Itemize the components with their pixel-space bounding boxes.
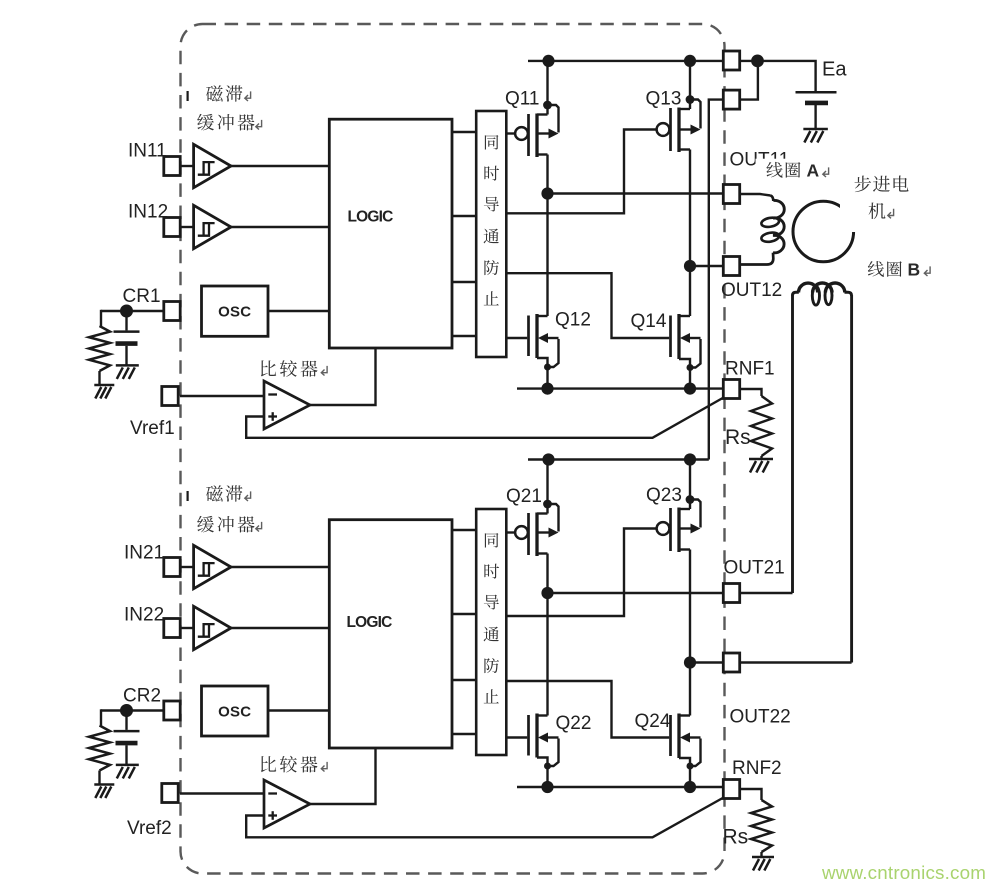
wire RNF2 to Rs	[739, 789, 761, 800]
svg-text:Rs: Rs	[723, 826, 749, 849]
ground Ea capacitor	[803, 129, 828, 143]
resistor Rs upper	[751, 396, 772, 456]
transistor Q13	[657, 100, 701, 153]
wire CR1 node	[101, 310, 164, 312]
svg-text:OUT21: OUT21	[724, 558, 785, 579]
pin OUT12	[723, 257, 739, 276]
svg-text:OUT22: OUT22	[730, 707, 791, 728]
wire Q11 drain rail	[546, 61, 548, 115]
wire Q23 drain rail	[689, 460, 691, 510]
wire CR1 to capacitor	[125, 315, 127, 330]
svg-text:Q11: Q11	[505, 89, 540, 110]
node Q24 source bus junction	[684, 781, 696, 793]
transistor Q22	[529, 714, 559, 770]
wire comparator 2 feedback from RNF2	[246, 798, 723, 838]
block shoot-through-prevention 2	[476, 509, 506, 755]
wire OSC2 to LOGIC2	[268, 709, 329, 711]
pin OUT21	[723, 584, 739, 603]
wire Q13 drain rail	[689, 61, 691, 109]
label shoot-through-prevention text 1	[485, 135, 499, 150]
svg-text:CR1: CR1	[123, 286, 161, 307]
wire buffer IN21 to LOGIC2	[231, 566, 329, 568]
capacitor CR1 timing	[114, 332, 140, 366]
label comparator chinese bottom	[261, 756, 276, 772]
wire Vs top bus	[528, 60, 724, 62]
wire Rs2 to ground	[760, 852, 762, 857]
wire Q14 gate	[506, 273, 669, 338]
pin Vref1	[162, 387, 178, 406]
wire OUT11 pin to coil A	[739, 194, 770, 196]
pin Vs P2	[723, 90, 739, 109]
capacitor Ea filter	[796, 92, 837, 129]
transistor Q11	[515, 105, 558, 157]
svg-text:B: B	[908, 259, 921, 279]
wire pin P2 to Vs bus	[739, 61, 758, 100]
svg-text:www.cntronics.com: www.cntronics.com	[821, 862, 986, 883]
wire LOGIC to block 1c	[452, 281, 476, 283]
svg-text:Vref1: Vref1	[130, 418, 175, 439]
wire OUT21 rail Q21-Q22	[546, 554, 548, 716]
wire OSC1 to LOGIC	[268, 310, 329, 312]
svg-text:Q24: Q24	[635, 711, 671, 732]
wire Q21 drain rail	[546, 460, 548, 514]
wire Q21 gate	[506, 531, 515, 533]
comparator 2 plus sign	[268, 814, 277, 816]
svg-text:OSC: OSC	[218, 704, 251, 721]
node Q13 drain	[686, 95, 695, 104]
wire Q22 gate	[506, 736, 527, 738]
resistor CR2 timing	[89, 726, 110, 771]
wire Vs lower bus	[528, 458, 709, 460]
node Q11 drain	[543, 101, 552, 110]
node Q21 drain	[543, 500, 552, 509]
svg-text:Vref2: Vref2	[127, 818, 172, 839]
pin OUT11	[723, 185, 739, 204]
transistor Q24	[671, 714, 701, 770]
label shoot-through-prevention text 2	[485, 533, 499, 548]
op-amp comparator 1	[264, 381, 310, 429]
wire LOGIC2 to block 2b	[452, 613, 476, 615]
inductor coil A	[771, 196, 774, 202]
wire LOGIC2 to block 2a	[452, 529, 476, 531]
wire IN22 pin to buffer	[180, 627, 194, 629]
buffer IN22 hysteresis	[194, 606, 231, 649]
wire Q23 gate	[506, 529, 657, 617]
wire RNF2 bottom bus	[517, 786, 724, 788]
wire CR2 to resistor	[100, 709, 102, 725]
pin Vref2	[162, 784, 178, 803]
motor circle stepper	[793, 201, 854, 262]
block LOGIC U2	[329, 520, 452, 748]
wire IN11 pin to buffer	[180, 165, 194, 167]
ground Rs upper	[749, 459, 773, 473]
svg-text:RNF1: RNF1	[725, 359, 775, 380]
ground CR1 resistor	[94, 385, 114, 399]
label stepper motor line2	[869, 203, 886, 220]
svg-text:OUT12: OUT12	[721, 280, 782, 301]
wire Q12 source to bus	[546, 367, 548, 389]
transistor Q21	[515, 504, 558, 556]
pin CR1	[164, 302, 180, 321]
buffer IN11 hysteresis	[194, 144, 231, 187]
wire Q11 gate	[506, 132, 515, 134]
wire buffer IN11 to LOGIC	[231, 165, 329, 167]
wire Q24 source to bus	[689, 766, 691, 787]
node lower bus junction left	[542, 453, 554, 465]
svg-text:CR2: CR2	[123, 686, 161, 707]
svg-text:IN12: IN12	[128, 202, 168, 223]
node Vs bus junction right	[684, 55, 696, 67]
wire IN21 pin to buffer	[180, 566, 194, 568]
white overlay on OUT11	[756, 159, 833, 181]
transistor Q12	[529, 314, 559, 371]
wire RNF1 to Rs	[739, 389, 761, 396]
label hysteresis buffer line2 top	[197, 114, 214, 131]
wire OUT22 pin to coil B	[739, 661, 851, 663]
node lower bus junction right	[684, 453, 696, 465]
block OSC1	[202, 286, 269, 336]
wire OUT22 rail Q23-Q24	[689, 550, 691, 716]
wire node OUT21 to pin OUT21	[548, 592, 724, 594]
pin Vs P1	[723, 51, 739, 70]
ground Rs lower	[752, 857, 774, 871]
comparator 1 minus sign	[268, 393, 277, 395]
svg-text:Q23: Q23	[646, 485, 682, 506]
IC boundary dashed box	[181, 24, 725, 874]
wire comparator 1 feedback from RNF1	[246, 398, 723, 438]
wire LOGIC to block 1a	[452, 131, 476, 133]
wire resistor to ground	[98, 371, 100, 385]
svg-text:Ea: Ea	[822, 59, 847, 81]
ground CR2 resistor	[94, 785, 114, 799]
label stepper motor line1	[855, 176, 872, 193]
pin IN12	[164, 218, 180, 237]
svg-text:OSC: OSC	[218, 304, 251, 321]
wire Q22 source to bus	[546, 766, 548, 787]
wire LOGIC to block 1d	[452, 335, 476, 337]
label hysteresis buffer line1 top	[206, 85, 223, 101]
wire CR1 to resistor	[100, 310, 102, 326]
svg-text:IN11: IN11	[128, 141, 167, 162]
pin OUT22	[723, 653, 739, 672]
node CR2	[120, 704, 133, 717]
inductor coil B	[791, 295, 794, 594]
comparator 1 plus sign	[268, 415, 277, 417]
node OUT22	[684, 656, 696, 668]
pin IN21	[164, 558, 180, 577]
wire RNF1 bottom bus	[517, 387, 724, 389]
comparator 2 minus sign	[268, 792, 277, 794]
label hysteresis buffer line2 bottom	[197, 516, 214, 533]
svg-text:LOGIC: LOGIC	[346, 614, 392, 631]
wire node OUT22 to pin OUT22	[690, 661, 724, 663]
block shoot-through-prevention 1	[476, 111, 506, 357]
block OSC2	[202, 686, 269, 736]
node Q22 source bus junction	[541, 781, 553, 793]
wire Vref1 to comparator minus	[180, 395, 264, 397]
svg-text:IN21: IN21	[124, 543, 164, 564]
stray tick mark top	[187, 91, 189, 101]
wire Q13 gate	[506, 130, 657, 214]
svg-text:Q12: Q12	[555, 310, 591, 331]
wire node OUT12 to pin OUT12	[690, 265, 724, 267]
wire Q12 gate	[506, 337, 527, 339]
label hysteresis buffer line1 bottom	[206, 485, 223, 501]
ground CR1 capacitor	[116, 365, 139, 379]
svg-text:LOGIC: LOGIC	[347, 209, 393, 226]
wire comparator 2 output to LOGIC2	[310, 748, 376, 804]
svg-text:Q21: Q21	[506, 486, 542, 507]
node OUT12	[684, 260, 696, 272]
wire LOGIC2 to block 2c	[452, 679, 476, 681]
pin RNF2	[723, 780, 739, 799]
node Q23 drain	[686, 495, 695, 504]
wire OUT12 rail Q13-Q14	[689, 150, 691, 317]
wire OUT21 pin to coil B	[739, 592, 792, 594]
svg-text:Q14: Q14	[631, 311, 667, 332]
wire Rs to ground	[760, 456, 762, 459]
node OUT11	[541, 187, 553, 199]
wire Ea supply	[739, 61, 815, 92]
resistor CR1 timing	[89, 326, 110, 371]
ground CR2 capacitor	[116, 765, 139, 779]
node OUT21	[541, 587, 553, 599]
wire OUT11 rail Q11-Q12	[546, 155, 548, 317]
pin IN22	[164, 619, 180, 638]
buffer IN21 hysteresis	[194, 545, 231, 588]
wire comparator 1 output to LOGIC	[310, 348, 376, 405]
svg-text:Rs: Rs	[725, 426, 751, 449]
wire node OUT11 to pin OUT11	[548, 192, 724, 194]
wire Vs feed from pin P2 to lower bridge	[709, 100, 724, 460]
node CR1	[120, 305, 133, 318]
capacitor CR2 timing	[114, 731, 140, 765]
node Q12 source bus junction	[541, 383, 553, 395]
node Q14 source bus junction	[684, 383, 696, 395]
label comparator chinese top	[261, 360, 276, 376]
wire Vref2 to comparator minus	[180, 792, 264, 794]
wire resistor2 to ground	[98, 771, 100, 785]
white overlay motor label area	[840, 174, 913, 232]
wire Q24 gate	[506, 681, 669, 738]
transistor Q23	[657, 500, 701, 553]
label coil B	[868, 261, 884, 277]
svg-text:A: A	[807, 160, 820, 180]
wire Q14 source to bus	[689, 368, 691, 389]
svg-text:Q13: Q13	[646, 89, 682, 110]
node Ea junction	[751, 55, 764, 68]
node Vs bus junction left	[542, 55, 554, 67]
pin IN11	[164, 157, 180, 176]
wire buffer IN22 to LOGIC2	[231, 627, 329, 629]
wire CR2 to capacitor	[125, 715, 127, 730]
op-amp comparator 2	[264, 780, 310, 828]
svg-text:RNF2: RNF2	[732, 758, 782, 779]
resistor Rs lower	[751, 800, 772, 852]
stray tick mark bottom	[187, 491, 189, 501]
label coil A	[766, 162, 782, 178]
block LOGIC U1	[329, 119, 452, 348]
buffer IN12 hysteresis	[194, 205, 231, 248]
pin CR2	[164, 701, 180, 720]
wire IN12 pin to buffer	[180, 226, 194, 228]
wire buffer IN12 to LOGIC	[231, 226, 329, 228]
wire LOGIC2 to block 2d	[452, 733, 476, 735]
svg-text:IN22: IN22	[124, 605, 164, 626]
transistor Q14	[671, 314, 701, 371]
wire LOGIC to block 1b	[452, 215, 476, 217]
wire CR2 node	[101, 709, 164, 711]
svg-text:Q22: Q22	[556, 713, 592, 734]
pin RNF1	[723, 380, 739, 399]
